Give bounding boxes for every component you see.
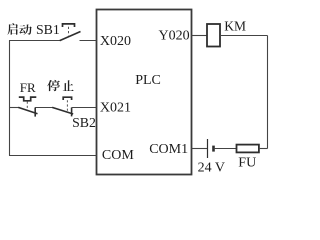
fuse FU	[237, 145, 259, 153]
svg-text:PLC: PLC	[135, 73, 161, 88]
contactor coil KM	[207, 24, 220, 47]
thermal relay FR symbol	[19, 97, 37, 101]
wire Y020 to KM	[192, 35, 208, 37]
label text 停止 (stop)	[47, 80, 73, 91]
pushbutton SB2 tick	[71, 108, 73, 117]
svg-text:X021: X021	[100, 101, 131, 116]
svg-text:KM: KM	[224, 18, 246, 33]
wire left rail	[9, 41, 11, 156]
battery long plate	[207, 139, 209, 158]
wire row2 left	[9, 107, 19, 109]
wire right rail	[267, 36, 269, 149]
PLC box	[97, 10, 192, 175]
svg-text:Y020: Y020	[159, 29, 190, 44]
svg-text:COM: COM	[102, 148, 134, 163]
wire COM row	[9, 155, 97, 157]
pushbutton SB1 (NO) blade	[60, 32, 81, 41]
contact FR (NC) blade	[18, 107, 37, 113]
wire COM1 to battery	[192, 148, 208, 150]
wire SB1 to X020	[80, 40, 97, 42]
wire fuse to right rail	[259, 148, 268, 150]
pushbutton SB1 actuator dashed link	[68, 27, 70, 36]
contact FR tick	[34, 108, 36, 117]
svg-text:COM1: COM1	[149, 142, 188, 157]
svg-text:FR: FR	[20, 80, 36, 95]
wire SB2 to X021	[72, 107, 97, 109]
svg-text:X020: X020	[100, 34, 131, 49]
svg-text:SB2: SB2	[72, 115, 96, 130]
wire SB1 row left	[9, 40, 60, 42]
thermal relay FR dashed link	[26, 102, 28, 111]
wire row2 middle	[35, 107, 53, 109]
label text 启动 (start)	[7, 23, 31, 35]
svg-text:SB1: SB1	[36, 22, 60, 37]
wire KM to right rail	[220, 35, 268, 37]
svg-text:24 V: 24 V	[198, 161, 225, 176]
pushbutton SB2 dashed link	[66, 100, 68, 111]
pushbutton SB2 actuator cap	[63, 97, 71, 100]
pushbutton SB1 actuator cap	[63, 24, 75, 27]
wire battery to fuse	[214, 148, 237, 150]
svg-text:FU: FU	[238, 155, 256, 170]
battery short plate	[212, 146, 215, 152]
pushbutton SB2 (NC) blade	[52, 107, 73, 114]
